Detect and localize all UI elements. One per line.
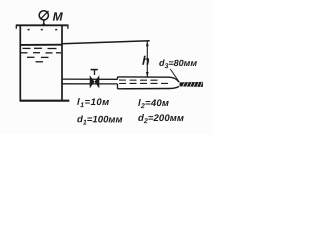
svg-text:M: M <box>53 10 64 24</box>
svg-text:h: h <box>142 54 150 68</box>
